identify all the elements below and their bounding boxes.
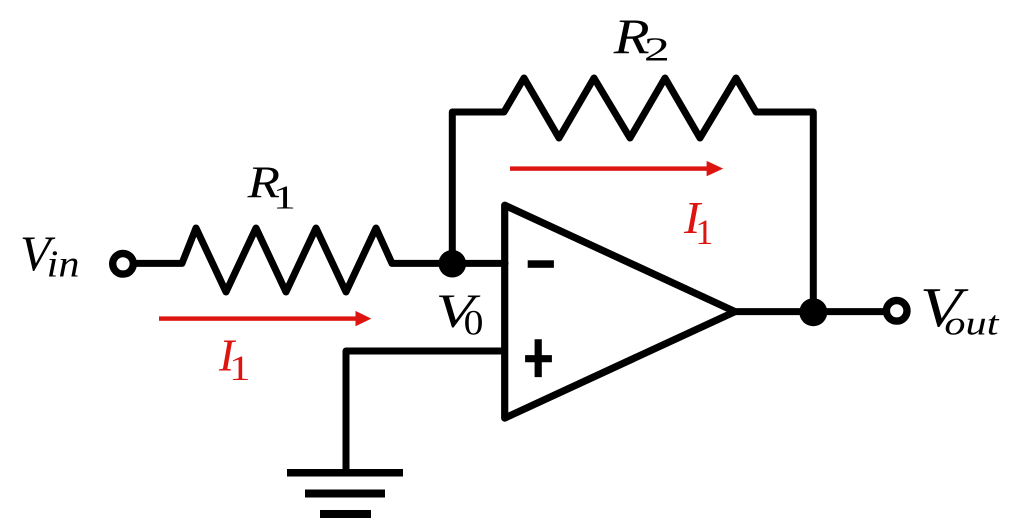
- svg-text:1: 1: [273, 179, 296, 216]
- svg-text:1: 1: [695, 212, 713, 252]
- svg-text:2: 2: [644, 31, 670, 68]
- svg-text:out: out: [944, 306, 1000, 343]
- svg-text:0: 0: [464, 303, 484, 343]
- svg-text:in: in: [47, 244, 80, 286]
- svg-text:1: 1: [229, 348, 250, 388]
